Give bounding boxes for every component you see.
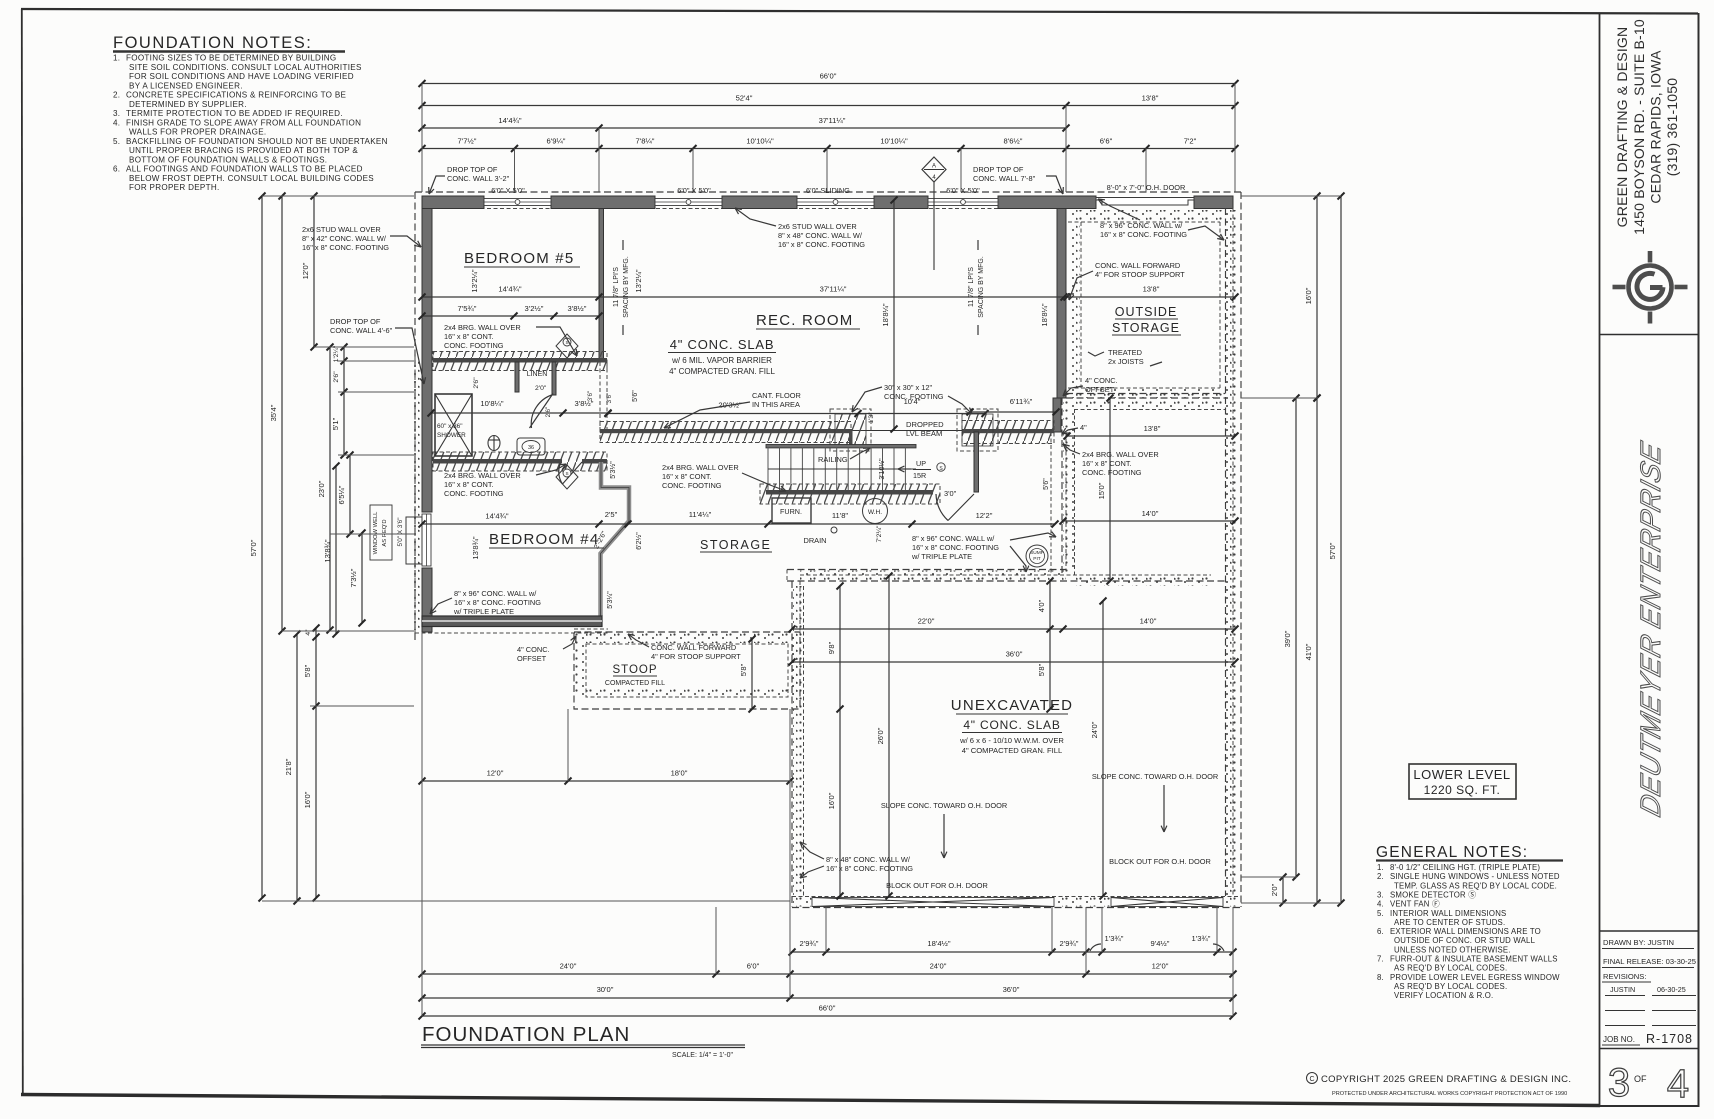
svg-text:24'0": 24'0": [930, 962, 947, 971]
svg-text:CANT. FLOOR: CANT. FLOOR: [752, 391, 801, 400]
svg-text:6'2½": 6'2½": [635, 532, 643, 550]
svg-text:VERIFY LOCATION & R.O.: VERIFY LOCATION & R.O.: [1394, 991, 1493, 1000]
svg-text:VENT FAN Ⓕ: VENT FAN Ⓕ: [1390, 900, 1440, 909]
svg-text:24'0": 24'0": [560, 962, 577, 971]
svg-text:16" x 8" CONC. FOOTING: 16" x 8" CONC. FOOTING: [912, 543, 999, 552]
svg-text:1450 BOYSON RD. - SUITE B-10: 1450 BOYSON RD. - SUITE B-10: [1631, 19, 1647, 235]
svg-text:6'6": 6'6": [1100, 137, 1113, 146]
svg-text:7'3½": 7'3½": [349, 568, 358, 587]
svg-text:STORAGE: STORAGE: [1112, 321, 1180, 335]
svg-text:SPACING BY MFG.: SPACING BY MFG.: [978, 256, 985, 318]
svg-text:5'6": 5'6": [1043, 478, 1050, 490]
svg-text:3.: 3.: [1377, 890, 1384, 899]
svg-text:OFFSET: OFFSET: [517, 654, 547, 663]
svg-text:5'0" X 3'6": 5'0" X 3'6": [397, 517, 404, 546]
svg-text:OFFSET: OFFSET: [1085, 385, 1115, 394]
svg-text:16" x 8" CONC. FOOTING: 16" x 8" CONC. FOOTING: [302, 243, 389, 252]
svg-text:FOR PROPER DEPTH.: FOR PROPER DEPTH.: [129, 183, 220, 192]
svg-text:52'4": 52'4": [736, 94, 753, 103]
svg-text:2x4 BRG. WALL OVER: 2x4 BRG. WALL OVER: [1082, 450, 1159, 459]
svg-text:w/ TRIPLE PLATE: w/ TRIPLE PLATE: [911, 552, 972, 561]
svg-text:3'6": 3'6": [587, 391, 594, 402]
svg-text:AS REQ'D BY LOCAL CODES.: AS REQ'D BY LOCAL CODES.: [1394, 982, 1507, 991]
svg-text:14'0": 14'0": [1142, 509, 1159, 518]
svg-text:BLOCK OUT FOR O.H. DOOR: BLOCK OUT FOR O.H. DOOR: [886, 881, 988, 890]
svg-text:3'10½": 3'10½": [878, 458, 886, 480]
svg-text:35'4": 35'4": [269, 404, 278, 421]
svg-text:8" x 96" CONC. WALL w/: 8" x 96" CONC. WALL w/: [454, 589, 537, 598]
svg-text:TERMITE PROTECTION TO BE ADDED: TERMITE PROTECTION TO BE ADDED IF REQUIR…: [126, 109, 343, 118]
svg-text:7'2": 7'2": [1184, 137, 1197, 146]
svg-text:8" x 48" CONC. WALL W/: 8" x 48" CONC. WALL W/: [778, 231, 863, 240]
svg-text:16" x 8" CONC. FOOTING: 16" x 8" CONC. FOOTING: [454, 598, 541, 607]
svg-text:OUTSIDE: OUTSIDE: [1115, 305, 1178, 319]
svg-text:PIT: PIT: [1033, 556, 1041, 562]
svg-text:4" FOR STOOP SUPPORT: 4" FOR STOOP SUPPORT: [651, 652, 741, 661]
svg-text:4" CONC. SLAB: 4" CONC. SLAB: [670, 337, 775, 352]
svg-text:SHOWER: SHOWER: [437, 432, 466, 439]
svg-text:LOWER LEVEL: LOWER LEVEL: [1413, 767, 1510, 782]
svg-text:3: 3: [1608, 1061, 1630, 1105]
svg-text:30" x 30" x 12": 30" x 30" x 12": [884, 383, 933, 392]
svg-text:ARE TO CENTER OF STUDS.: ARE TO CENTER OF STUDS.: [1394, 918, 1505, 927]
svg-text:8" x 96" CONC. WALL w/: 8" x 96" CONC. WALL w/: [912, 534, 995, 543]
svg-text:2.: 2.: [1377, 872, 1384, 881]
svg-text:14'4¾": 14'4¾": [498, 116, 521, 125]
svg-text:DROP TOP OF: DROP TOP OF: [973, 165, 1024, 174]
svg-text:JOB NO.: JOB NO.: [1603, 1035, 1635, 1044]
svg-text:5.: 5.: [113, 137, 120, 146]
svg-text:16'0": 16'0": [1304, 287, 1313, 304]
svg-text:4" CONC. SLAB: 4" CONC. SLAB: [963, 718, 1060, 732]
svg-text:7'2¼": 7'2¼": [876, 525, 883, 543]
svg-text:15'0": 15'0": [1097, 482, 1106, 499]
svg-text:A: A: [932, 164, 936, 170]
svg-text:11 7/8" LPI'S: 11 7/8" LPI'S: [968, 267, 975, 307]
svg-text:SPACING BY MFG.: SPACING BY MFG.: [623, 256, 630, 318]
svg-text:7'8¼": 7'8¼": [636, 137, 655, 146]
svg-text:16" x 8" CONC. FOOTING: 16" x 8" CONC. FOOTING: [826, 864, 913, 873]
svg-text:6.: 6.: [113, 165, 120, 174]
svg-text:W.H.: W.H.: [868, 509, 882, 516]
svg-text:BACKFILLING OF FOUNDATION SHOU: BACKFILLING OF FOUNDATION SHOULD NOT BE …: [126, 137, 388, 146]
svg-text:6'0" X 5'0": 6'0" X 5'0": [491, 186, 525, 195]
svg-text:DETERMINED BY SUPPLIER.: DETERMINED BY SUPPLIER.: [129, 100, 247, 109]
svg-text:RAILING: RAILING: [818, 455, 848, 464]
svg-text:8'-0" x 7'-0" O.H. DOOR: 8'-0" x 7'-0" O.H. DOOR: [1107, 183, 1186, 192]
svg-text:5'3½": 5'3½": [609, 461, 617, 479]
svg-text:DROP TOP OF: DROP TOP OF: [330, 317, 381, 326]
svg-text:2x4 BRG. WALL OVER: 2x4 BRG. WALL OVER: [444, 471, 521, 480]
svg-text:2'6": 2'6": [333, 371, 340, 383]
svg-text:22'0": 22'0": [918, 617, 935, 626]
svg-text:COMPACTED FILL: COMPACTED FILL: [605, 680, 665, 687]
svg-text:UNLESS NOTED OTHERWISE.: UNLESS NOTED OTHERWISE.: [1394, 945, 1511, 954]
svg-text:R-1708: R-1708: [1646, 1032, 1693, 1046]
svg-text:8.: 8.: [1377, 973, 1384, 982]
svg-text:1'3": 1'3": [868, 412, 875, 424]
svg-text:4" CONC.: 4" CONC.: [517, 645, 550, 654]
svg-text:S: S: [565, 471, 568, 476]
svg-text:TEMP. GLASS AS REQ'D BY LOCAL: TEMP. GLASS AS REQ'D BY LOCAL CODE.: [1394, 881, 1557, 890]
svg-text:REC. ROOM: REC. ROOM: [756, 312, 853, 329]
svg-text:7'5¾": 7'5¾": [458, 304, 477, 313]
svg-text:SINGLE HUNG WINDOWS - UNLESS N: SINGLE HUNG WINDOWS - UNLESS NOTED: [1390, 872, 1560, 881]
svg-text:11 7/8" LPI'S: 11 7/8" LPI'S: [613, 267, 620, 307]
svg-text:10'8¼": 10'8¼": [480, 399, 503, 408]
svg-text:FURR-OUT & INSULATE BASEMENT W: FURR-OUT & INSULATE BASEMENT WALLS: [1390, 955, 1558, 964]
svg-text:16" x 8" CONC. FOOTING: 16" x 8" CONC. FOOTING: [1100, 230, 1187, 239]
svg-text:IN THIS AREA: IN THIS AREA: [752, 400, 800, 409]
svg-text:16'0": 16'0": [303, 791, 312, 808]
svg-text:STOOP: STOOP: [612, 664, 657, 676]
svg-text:2x6 STUD WALL OVER: 2x6 STUD WALL OVER: [302, 225, 381, 234]
svg-text:2'9¾": 2'9¾": [800, 939, 819, 948]
svg-text:12'2": 12'2": [976, 511, 993, 520]
svg-text:14'4¾": 14'4¾": [498, 285, 521, 294]
svg-text:5'1": 5'1": [331, 417, 340, 430]
svg-text:16" x 8" CONT.: 16" x 8" CONT.: [444, 480, 494, 489]
svg-text:16'0": 16'0": [827, 792, 836, 809]
svg-text:1'3¾": 1'3¾": [1105, 934, 1124, 943]
svg-text:LVL BEAM: LVL BEAM: [906, 429, 942, 438]
svg-text:2.: 2.: [113, 91, 120, 100]
svg-text:2'5": 2'5": [605, 510, 618, 519]
svg-text:3'2½": 3'2½": [525, 304, 544, 313]
svg-text:30'0": 30'0": [597, 985, 614, 994]
svg-text:5'8": 5'8": [1037, 663, 1046, 676]
svg-text:24'0": 24'0": [1090, 721, 1099, 738]
svg-text:CONC. WALL FORWARD: CONC. WALL FORWARD: [1095, 261, 1180, 270]
svg-text:66'0": 66'0": [819, 1004, 836, 1013]
svg-text:ALL FOOTINGS AND FOUNDATION WA: ALL FOOTINGS AND FOUNDATION WALLS TO BE …: [126, 165, 363, 174]
svg-text:EXTERIOR WALL DIMENSIONS ARE T: EXTERIOR WALL DIMENSIONS ARE TO: [1390, 927, 1541, 936]
svg-text:FOR SOIL CONDITIONS AND HAVE L: FOR SOIL CONDITIONS AND HAVE LOADING VER…: [129, 72, 354, 81]
svg-text:4'0": 4'0": [1037, 599, 1046, 612]
svg-text:w/ TRIPLE PLATE: w/ TRIPLE PLATE: [453, 607, 514, 616]
svg-text:3'8½": 3'8½": [568, 304, 587, 313]
svg-text:36: 36: [528, 445, 534, 451]
svg-text:BLOCK OUT FOR O.H. DOOR: BLOCK OUT FOR O.H. DOOR: [1109, 857, 1211, 866]
svg-text:3.: 3.: [113, 109, 120, 118]
svg-text:1.: 1.: [1377, 863, 1384, 872]
svg-text:7.: 7.: [1377, 955, 1384, 964]
svg-text:SUMP: SUMP: [1030, 550, 1044, 556]
svg-text:BELOW FROST DEPTH. CONSULT LO: BELOW FROST DEPTH. CONSULT LOCAL BUILDIN…: [129, 174, 374, 183]
svg-text:DROP TOP OF: DROP TOP OF: [447, 165, 498, 174]
svg-text:CONC. FOOTING: CONC. FOOTING: [444, 341, 504, 350]
svg-text:12'0": 12'0": [1152, 962, 1169, 971]
svg-text:2x6 STUD WALL OVER: 2x6 STUD WALL OVER: [778, 222, 857, 231]
svg-text:6'0": 6'0": [747, 962, 760, 971]
svg-text:9'8": 9'8": [827, 641, 836, 654]
svg-text:5'8": 5'8": [739, 663, 748, 676]
svg-text:36'0": 36'0": [1003, 985, 1020, 994]
svg-text:DRAIN: DRAIN: [804, 536, 827, 545]
svg-text:UNEXCAVATED: UNEXCAVATED: [951, 697, 1073, 714]
svg-text:WALLS FOR PROPER DRAINAGE.: WALLS FOR PROPER DRAINAGE.: [129, 128, 266, 137]
svg-text:BY A LICENSED ENGINEER.: BY A LICENSED ENGINEER.: [129, 81, 243, 90]
svg-text:6'0" SLIDING: 6'0" SLIDING: [806, 186, 850, 195]
svg-text:AS REQ'D BY LOCAL CODES.: AS REQ'D BY LOCAL CODES.: [1394, 964, 1507, 973]
svg-text:CONC. FOOTING: CONC. FOOTING: [1082, 468, 1142, 477]
svg-text:26'0": 26'0": [876, 727, 885, 744]
svg-text:13'2¼": 13'2¼": [470, 269, 479, 292]
svg-text:DROPPED: DROPPED: [906, 420, 944, 429]
svg-text:1'2¼": 1'2¼": [333, 345, 340, 362]
svg-text:21'8": 21'8": [284, 758, 293, 775]
svg-text:FOUNDATION NOTES:: FOUNDATION NOTES:: [113, 34, 312, 52]
svg-text:4" FOR STOOP SUPPORT: 4" FOR STOOP SUPPORT: [1095, 270, 1185, 279]
svg-text:w/ 6 x 6 - 10/10 W.W.M. OVER: w/ 6 x 6 - 10/10 W.W.M. OVER: [959, 736, 1064, 745]
svg-text:39'0": 39'0": [1283, 630, 1292, 647]
svg-text:FURN.: FURN.: [780, 507, 802, 516]
svg-text:18'8¼": 18'8¼": [881, 303, 890, 326]
svg-text:11'8": 11'8": [832, 511, 849, 520]
svg-text:23'0": 23'0": [317, 480, 326, 497]
svg-text:9'4½": 9'4½": [1151, 939, 1170, 948]
svg-text:WINDOW WELL: WINDOW WELL: [373, 511, 379, 555]
svg-text:13'8¾": 13'8¾": [471, 536, 480, 559]
svg-text:13'8": 13'8": [1144, 424, 1161, 433]
svg-text:GENERAL NOTES:: GENERAL NOTES:: [1376, 844, 1528, 861]
svg-text:8" x 48" CONC. WALL W/: 8" x 48" CONC. WALL W/: [826, 855, 911, 864]
svg-text:COPYRIGHT 2025 GREEN DRAFTING: COPYRIGHT 2025 GREEN DRAFTING & DESIGN I…: [1321, 1074, 1571, 1085]
svg-text:(319) 361-1050: (319) 361-1050: [1664, 78, 1680, 177]
svg-text:DRAWN BY: JUSTIN: DRAWN BY: JUSTIN: [1603, 938, 1674, 947]
svg-text:6'0" X 5'0": 6'0" X 5'0": [677, 186, 711, 195]
svg-text:13'8": 13'8": [1143, 285, 1160, 294]
svg-text:4": 4": [1080, 423, 1087, 432]
svg-text:2x4 BRG. WALL OVER: 2x4 BRG. WALL OVER: [444, 323, 521, 332]
svg-text:CONC. WALL 7'-8": CONC. WALL 7'-8": [973, 174, 1036, 183]
svg-text:CONCRETE SPECIFICATIONS & REIN: CONCRETE SPECIFICATIONS & REINFORCING TO…: [126, 91, 347, 100]
svg-text:CONC. WALL FORWARD: CONC. WALL FORWARD: [651, 643, 736, 652]
svg-text:JUSTIN: JUSTIN: [1610, 985, 1635, 994]
svg-text:w/ 6 MIL. VAPOR BARRIER: w/ 6 MIL. VAPOR BARRIER: [671, 356, 772, 365]
svg-text:CEDAR RAPIDS, IOWA: CEDAR RAPIDS, IOWA: [1648, 50, 1664, 204]
svg-text:37'11¼": 37'11¼": [820, 285, 847, 294]
svg-text:06-30-25: 06-30-25: [1657, 985, 1686, 994]
svg-text:13'8": 13'8": [1142, 94, 1159, 103]
svg-text:4" COMPACTED GRAN. FILL: 4" COMPACTED GRAN. FILL: [669, 367, 775, 376]
svg-text:BEDROOM #5: BEDROOM #5: [464, 250, 574, 267]
svg-text:5'8": 5'8": [303, 664, 312, 677]
svg-text:18'0": 18'0": [671, 769, 688, 778]
svg-text:SCALE: 1/4" = 1'-0": SCALE: 1/4" = 1'-0": [672, 1052, 733, 1059]
svg-text:16" x 8" CONT.: 16" x 8" CONT.: [662, 472, 712, 481]
svg-text:2'0": 2'0": [535, 385, 547, 392]
svg-text:FOUNDATION PLAN: FOUNDATION PLAN: [422, 1023, 630, 1046]
svg-text:REVISIONS:: REVISIONS:: [1603, 972, 1646, 981]
svg-text:15R: 15R: [913, 471, 926, 480]
svg-text:TREATED: TREATED: [1108, 348, 1142, 357]
svg-text:5.: 5.: [1377, 909, 1384, 918]
svg-text:4" COMPACTED GRAN. FILL: 4" COMPACTED GRAN. FILL: [962, 746, 1062, 755]
svg-text:CONC. FOOTING: CONC. FOOTING: [662, 481, 722, 490]
svg-text:2'6": 2'6": [473, 377, 480, 389]
svg-text:PROTECTED UNDER ARCHITECTURAL: PROTECTED UNDER ARCHITECTURAL WORKS COPY…: [1332, 1091, 1567, 1097]
svg-text:SLOPE CONC. TOWARD O.H. DOOR: SLOPE CONC. TOWARD O.H. DOOR: [1092, 772, 1218, 781]
svg-text:FINAL RELEASE: 03-30-25: FINAL RELEASE: 03-30-25: [1603, 957, 1696, 966]
svg-text:18'8¼": 18'8¼": [1040, 303, 1049, 326]
svg-text:STORAGE: STORAGE: [700, 538, 771, 552]
svg-text:FOOTING SIZES TO BE DETERMINED: FOOTING SIZES TO BE DETERMINED BY BUILDI…: [126, 54, 336, 63]
svg-text:37'11¼": 37'11¼": [819, 116, 846, 125]
svg-text:2'9¾": 2'9¾": [1060, 939, 1079, 948]
svg-text:10'10¼": 10'10¼": [746, 137, 774, 146]
svg-text:1220 SQ. FT.: 1220 SQ. FT.: [1424, 783, 1501, 797]
svg-text:UP: UP: [916, 459, 926, 468]
svg-text:6'0" X 5'0": 6'0" X 5'0": [946, 186, 980, 195]
svg-text:4.: 4.: [113, 118, 120, 127]
svg-text:16" x 8" CONT.: 16" x 8" CONT.: [444, 332, 494, 341]
svg-text:C: C: [1309, 1076, 1314, 1083]
svg-text:OF: OF: [1634, 1074, 1647, 1084]
svg-text:BOTTOM OF FOUNDATION WALLS & F: BOTTOM OF FOUNDATION WALLS & FOOTINGS.: [129, 155, 327, 164]
svg-text:7'7½": 7'7½": [458, 137, 477, 146]
svg-text:CONC. FOOTING: CONC. FOOTING: [884, 392, 944, 401]
svg-text:8" x 42" CONC. WALL W/: 8" x 42" CONC. WALL W/: [302, 234, 387, 243]
svg-text:4" CONC.: 4" CONC.: [1085, 376, 1118, 385]
svg-text:UNTIL PROPER BRACING IS PROVID: UNTIL PROPER BRACING IS PROVIDED AT BOTH…: [129, 146, 358, 155]
svg-text:16" x 8" CONC. FOOTING: 16" x 8" CONC. FOOTING: [778, 240, 865, 249]
svg-text:12'0": 12'0": [487, 769, 504, 778]
svg-text:SITE SOIL CONDITIONS. CONSULT: SITE SOIL CONDITIONS. CONSULT LOCAL AUTH…: [129, 63, 362, 72]
svg-text:41'0": 41'0": [1304, 643, 1313, 660]
svg-text:6'11¾": 6'11¾": [1010, 397, 1033, 406]
svg-text:AS REQ'D: AS REQ'D: [382, 519, 388, 546]
svg-text:8'6½": 8'6½": [1004, 137, 1023, 146]
svg-text:5'3¼": 5'3¼": [607, 591, 614, 609]
svg-text:CONC. FOOTING: CONC. FOOTING: [444, 489, 504, 498]
svg-text:1.: 1.: [113, 54, 120, 63]
svg-text:6.: 6.: [1377, 927, 1384, 936]
svg-text:CONC. WALL 4'-6": CONC. WALL 4'-6": [330, 326, 393, 335]
svg-text:3'0": 3'0": [944, 489, 957, 498]
svg-text:2'6": 2'6": [545, 407, 552, 418]
svg-text:13'2¼": 13'2¼": [634, 269, 643, 292]
svg-text:36'0": 36'0": [1006, 650, 1023, 659]
svg-text:11'4¼": 11'4¼": [689, 510, 712, 519]
svg-text:4.: 4.: [1377, 900, 1384, 909]
svg-text:16" x 8" CONT.: 16" x 8" CONT.: [1082, 459, 1132, 468]
svg-text:LINEN: LINEN: [527, 371, 548, 378]
svg-text:57'0": 57'0": [1328, 542, 1337, 559]
svg-text:8" x 96" CONC. WALL w/: 8" x 96" CONC. WALL w/: [1100, 221, 1183, 230]
svg-text:60" x 36": 60" x 36": [437, 423, 463, 430]
svg-text:PROVIDE LOWER LEVEL EGRESS WIN: PROVIDE LOWER LEVEL EGRESS WINDOW: [1390, 973, 1560, 982]
svg-text:12'0": 12'0": [301, 262, 310, 279]
svg-text:14'4¾": 14'4¾": [485, 512, 508, 521]
svg-text:6'5¼": 6'5¼": [337, 485, 346, 504]
svg-text:2x JOISTS: 2x JOISTS: [1108, 357, 1144, 366]
svg-text:4: 4: [1667, 1062, 1689, 1106]
svg-text:SMOKE DETECTOR Ⓢ: SMOKE DETECTOR Ⓢ: [1390, 890, 1476, 899]
svg-text:GREEN DRAFTING & DESIGN: GREEN DRAFTING & DESIGN: [1614, 27, 1630, 228]
svg-text:BEDROOM #4: BEDROOM #4: [489, 531, 599, 548]
svg-text:13'8¾": 13'8¾": [323, 539, 332, 562]
svg-text:4": 4": [305, 629, 312, 636]
svg-text:FINISH GRADE TO SLOPE AWAY FRO: FINISH GRADE TO SLOPE AWAY FROM ALL FOUN…: [126, 118, 361, 127]
svg-text:8'-0 1/2" CEILING HGT. (TRIPLE: 8'-0 1/2" CEILING HGT. (TRIPLE PLATE): [1390, 863, 1540, 872]
svg-text:3'6": 3'6": [606, 393, 613, 404]
svg-text:57'0": 57'0": [249, 539, 258, 556]
svg-text:14'0": 14'0": [1140, 617, 1157, 626]
svg-text:CONC. WALL 3'-2": CONC. WALL 3'-2": [447, 174, 510, 183]
svg-text:2x4 BRG. WALL OVER: 2x4 BRG. WALL OVER: [662, 463, 739, 472]
svg-text:66'0": 66'0": [820, 72, 837, 81]
svg-text:1'3¾": 1'3¾": [1192, 934, 1211, 943]
svg-text:6'9¼": 6'9¼": [547, 137, 566, 146]
svg-text:2'0": 2'0": [1270, 883, 1279, 896]
svg-text:10'10¼": 10'10¼": [880, 137, 908, 146]
svg-text:OUTSIDE OF CONC. OR STUD WALL: OUTSIDE OF CONC. OR STUD WALL: [1394, 936, 1536, 945]
svg-text:18'4½": 18'4½": [927, 939, 950, 948]
svg-text:SLOPE CONC. TOWARD O.H. DOOR: SLOPE CONC. TOWARD O.H. DOOR: [881, 801, 1007, 810]
svg-text:5'6": 5'6": [632, 390, 639, 402]
svg-text:INTERIOR WALL DIMENSIONS: INTERIOR WALL DIMENSIONS: [1390, 909, 1506, 918]
svg-text:DEUTMEYER ENTERPRISE: DEUTMEYER ENTERPRISE: [1636, 438, 1667, 820]
